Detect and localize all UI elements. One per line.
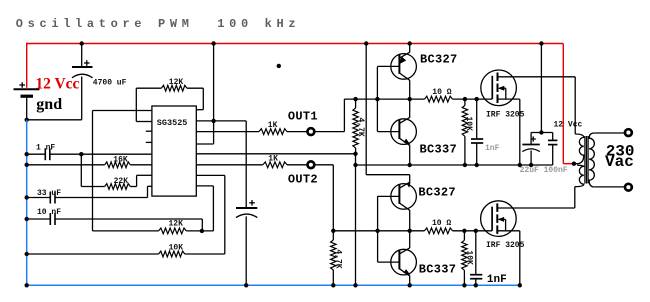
battery B1 plus sign <box>19 84 25 86</box>
transistor Q4 BC337 <box>391 249 417 275</box>
wire Q4 collector lead <box>409 231 411 248</box>
wire M2 source to ground <box>519 231 521 285</box>
transformer T1 primary lower <box>575 165 584 186</box>
svg-text:IRF 3205: IRF 3205 <box>486 110 525 119</box>
node Q4 emitter ground junction <box>408 283 412 287</box>
wire R11 leads <box>332 231 334 240</box>
transformer T1 secondary <box>589 133 594 187</box>
capacitor C9 1nF bottom lead <box>475 279 477 286</box>
wire 12Vcc drop <box>540 44 542 133</box>
capacitor C5 positive plate <box>236 207 257 209</box>
wire red right drop to transformer tap <box>562 44 564 164</box>
capacitor C1 4700uF positive plate <box>72 66 93 68</box>
node 4.7K bottom junction <box>353 152 357 156</box>
node M2 source ground junction <box>518 283 522 287</box>
wire primary bottom to M2 drain <box>574 187 576 208</box>
wire ground link to C1 bottom <box>27 119 82 121</box>
wire ground to 10K <box>27 253 159 255</box>
wire 12K loop right to U1 pin R1 <box>187 87 203 89</box>
node Q1 emitter rail junction <box>408 41 412 45</box>
resistor R9 10ohm <box>425 96 453 102</box>
svg-text:12K: 12K <box>169 219 184 228</box>
resistor R12 10ohm <box>425 228 453 234</box>
node stray dot <box>277 64 281 68</box>
svg-text:Vac: Vac <box>605 153 634 171</box>
node 1nF-2 ground junction <box>474 283 478 287</box>
capacitor C1 plus sign <box>84 62 90 64</box>
wire base bus Q3-Q4 <box>377 196 379 262</box>
terminal 230Vac top <box>625 129 632 136</box>
wire ground left rail (blue) <box>26 120 28 285</box>
node +12V rail to U1 junction <box>211 41 215 45</box>
node driver1 mid junction <box>408 97 412 101</box>
wire +12 to lower driver <box>365 44 367 175</box>
svg-text:Oscillatore PWM 100 kHz: Oscillatore PWM 100 kHz <box>16 17 300 31</box>
capacitor C8 100nF bottom lead <box>552 145 554 165</box>
wire ground bottom rail (blue) <box>27 284 520 286</box>
terminal 230Vac bottom <box>625 184 632 191</box>
svg-text:4,7K: 4,7K <box>333 249 342 268</box>
capacitor C6 1nF bottom lead <box>476 143 478 165</box>
transistor Q3 BC327 <box>391 184 417 210</box>
node transformer center tap <box>572 162 576 166</box>
wire 10ohm-2 to gate <box>453 230 493 232</box>
terminal OUT2 <box>308 161 315 168</box>
node OUT2/4.7K junction <box>331 229 335 233</box>
node 12Vcc cap junction <box>539 130 543 134</box>
node 12Vcc rail junction <box>539 41 543 45</box>
svg-text:33 uF: 33 uF <box>37 189 61 198</box>
wire 12K junction to U1 pin R8 <box>186 230 213 232</box>
node 10K-1 top junction <box>463 97 467 101</box>
capacitor C7 bottom lead <box>530 151 532 166</box>
svg-text:22K: 22K <box>114 177 129 186</box>
wire 16K to U1 pin <box>130 164 152 166</box>
wire emitter bus <box>356 164 553 166</box>
wire U1 OUTB to 1K <box>196 164 263 166</box>
resistor R7 1K <box>263 162 287 168</box>
node 16K row ground junction <box>25 163 29 167</box>
wire 22K to U1 pin <box>130 186 136 188</box>
svg-text:12K: 12K <box>169 78 184 87</box>
transistor Q2 BC337 <box>391 119 417 145</box>
wire R10 leads <box>464 99 466 105</box>
battery B1 positive plate <box>14 88 40 90</box>
node emitter bus left junction <box>353 163 357 167</box>
node totem2 rail junction <box>364 41 368 45</box>
svg-text:10 nF: 10 nF <box>37 208 61 217</box>
svg-text:10K: 10K <box>464 117 473 132</box>
capacitor C1 bottom lead <box>81 77 83 120</box>
wire secondary top to terminal <box>594 132 624 134</box>
node R11 ground junction <box>331 283 335 287</box>
capacitor C1 4700uF curved plate <box>72 74 93 78</box>
node M1 source bus junction <box>518 163 522 167</box>
wire 4.7K bottom to ground bus <box>355 154 357 165</box>
wire U1 VC pin to bypass cap <box>196 120 246 122</box>
capacitor C7 plus sign <box>531 138 536 140</box>
node 12K/10nF junction <box>200 229 204 233</box>
capacitor C9 1nF plates <box>470 274 482 276</box>
svg-text:12 Vcc: 12 Vcc <box>554 121 583 130</box>
node 4.7K top junction <box>353 97 357 101</box>
transistor M1 IRF 3205 <box>481 70 517 106</box>
node ground bottom-left corner <box>25 283 29 287</box>
svg-text:1nF: 1nF <box>487 274 507 286</box>
wire M1 source to bus <box>519 99 521 165</box>
svg-text:BC327: BC327 <box>420 52 458 66</box>
capacitor C4 10nF right lead <box>55 218 202 220</box>
node 1nF-1 bottom junction <box>475 163 479 167</box>
wire 4.7K leads <box>355 99 357 108</box>
wire U1 pin L2 to 12K loop <box>136 121 152 123</box>
capacitor C2 1nF plates <box>44 148 46 160</box>
svg-text:SG3525: SG3525 <box>157 118 188 128</box>
transistor Q1 BC327 <box>391 54 417 80</box>
wire cap bank top <box>531 132 553 134</box>
wire Q1 emitter lead <box>409 44 411 53</box>
svg-text:BC327: BC327 <box>418 186 456 200</box>
wire M1 drain drop to primary top <box>574 77 576 134</box>
node U1 VC tap junction <box>211 119 215 123</box>
node 1nF-2 top junction <box>474 229 478 233</box>
node 10K-2 ground junction <box>462 283 466 287</box>
wire 10ohm to gate <box>453 98 493 100</box>
node Q2 emitter bus junction <box>408 163 412 167</box>
node 4.7K ground junction <box>353 283 357 287</box>
wire Q3 collector to node <box>409 210 411 231</box>
wire OUT2 to lower driver node <box>314 164 333 166</box>
node 1nF-1 top junction <box>475 97 479 101</box>
wire Q4 emitter to ground <box>409 276 411 286</box>
svg-text:10 Ω: 10 Ω <box>432 88 451 97</box>
svg-text:10 Ω: 10 Ω <box>432 219 451 228</box>
node 33uF row ground junction <box>25 195 29 199</box>
resistor R6 1K <box>259 129 287 135</box>
capacitor C5 top lead <box>245 121 247 208</box>
resistor R4 12K bottom <box>159 228 187 234</box>
node base bus junction 2 <box>375 229 379 233</box>
resistor R1 12K <box>161 85 187 91</box>
capacitor C4 10nF plates <box>49 213 51 225</box>
wire 1K to OUT2 terminal <box>287 164 308 166</box>
wire 1K to OUT1 terminal <box>287 131 308 133</box>
svg-text:OUT1: OUT1 <box>288 109 318 123</box>
wire Q1 collector to node <box>409 80 411 99</box>
node C7 bus junction <box>529 163 533 167</box>
transformer T1 primary upper <box>574 134 584 164</box>
capacitor C5 curved plate <box>236 214 257 218</box>
capacitor C3 33uF left lead <box>27 197 51 199</box>
node 1nF row branch junction <box>79 152 83 156</box>
node 10nF row ground junction <box>25 217 29 221</box>
capacitor C7 22uF top lead <box>530 133 532 145</box>
capacitor C2 1nF right lead to U1 <box>50 153 152 155</box>
resistor R13 10K <box>462 240 467 270</box>
wire battery minus to ground corner <box>26 96 28 120</box>
svg-text:4,7K: 4,7K <box>356 118 365 137</box>
capacitor C5 plus sign <box>249 202 255 204</box>
node 10K-1 bottom junction <box>463 163 467 167</box>
svg-text:10K: 10K <box>169 243 184 252</box>
wire driver2 node row <box>333 230 424 232</box>
resistor R3 22K <box>105 184 131 190</box>
svg-text:BC337: BC337 <box>420 142 458 156</box>
svg-text:4700 uF: 4700 uF <box>93 78 127 87</box>
svg-text:1nF: 1nF <box>485 144 500 153</box>
capacitor C6 1nF plates <box>471 138 483 140</box>
node 1nF row ground junction <box>25 152 29 156</box>
svg-text:1K: 1K <box>268 121 278 130</box>
pin U1 left stub a <box>146 130 152 132</box>
capacitor C7 22uF curved plate <box>522 149 539 152</box>
node C1 top junction on +12V rail <box>80 41 84 45</box>
resistor R2 16K <box>105 162 131 168</box>
capacitor C3 33uF right lead to U1 <box>55 197 148 199</box>
capacitor C9 1nF top lead <box>475 231 477 275</box>
capacitor C8 100nF plates <box>548 139 557 141</box>
wire U1 pin L1 to bottom 12K <box>93 110 152 112</box>
node driver2 mid junction <box>408 229 412 233</box>
terminal OUT1 <box>308 128 315 135</box>
svg-text:IRF 3205: IRF 3205 <box>486 241 525 250</box>
svg-text:1K: 1K <box>268 155 278 164</box>
wire R13 leads <box>463 231 465 241</box>
svg-text:22uF 100nF: 22uF 100nF <box>520 166 568 175</box>
wire Q2 emitter to bus <box>409 145 411 165</box>
node base bus junction 1 <box>375 97 379 101</box>
svg-text:16K: 16K <box>113 155 128 164</box>
capacitor C4 10nF left lead <box>27 218 51 220</box>
capacitor C2 1nF left lead <box>27 153 46 155</box>
resistor R5 10K <box>159 251 185 257</box>
wire Q2 collector lead <box>409 99 411 118</box>
wire +12V drop to U1 VCC <box>213 44 215 145</box>
node 10K-2 top junction <box>462 229 466 233</box>
svg-text:OUT2: OUT2 <box>288 173 318 187</box>
wire red left drop to battery <box>26 43 28 88</box>
pin U1 left stub b <box>146 141 152 143</box>
svg-text:gnd: gnd <box>36 96 62 113</box>
node battery ground junction <box>25 118 29 122</box>
wire U1 ground pin to 4.7K bottom <box>196 153 355 155</box>
capacitor C1 4700uF top lead <box>81 44 83 68</box>
capacitor C8 100nF top lead <box>552 133 554 141</box>
wire ground to 16K <box>27 164 105 166</box>
node 10K row ground junction <box>25 252 29 256</box>
resistor R10 10K <box>462 105 467 136</box>
svg-text:10K: 10K <box>465 250 474 265</box>
svg-text:1 nF: 1 nF <box>36 143 55 152</box>
wire 10K to U1 pin <box>185 253 225 255</box>
capacitor C3 33uF plates <box>49 192 51 204</box>
wire branch down to 22K <box>80 154 82 186</box>
capacitor C6 1nF top lead <box>476 99 478 139</box>
resistor R11 4.7K <box>331 240 336 270</box>
resistor R8 4.7K <box>353 108 358 148</box>
wire secondary bottom to terminal <box>594 186 624 188</box>
transformer T1 core <box>584 136 586 184</box>
wire OUT1 to driver node <box>314 131 344 133</box>
transistor M2 IRF 3205 <box>481 201 517 237</box>
wire +12V top rail (red) <box>27 43 564 45</box>
capacitor C5 bottom lead <box>245 216 247 285</box>
capacitor C7 22uF positive plate <box>522 144 539 146</box>
wire ground riser crossing <box>355 230 357 232</box>
battery B1 negative plate <box>21 95 34 98</box>
svg-text:BC337: BC337 <box>419 262 457 276</box>
wire base bus Q1-Q2 <box>376 67 378 132</box>
node C5 ground junction <box>244 283 248 287</box>
op-amp U1 SG3525 body <box>152 106 196 196</box>
wire U1 OUTA to 1K <box>196 131 259 133</box>
